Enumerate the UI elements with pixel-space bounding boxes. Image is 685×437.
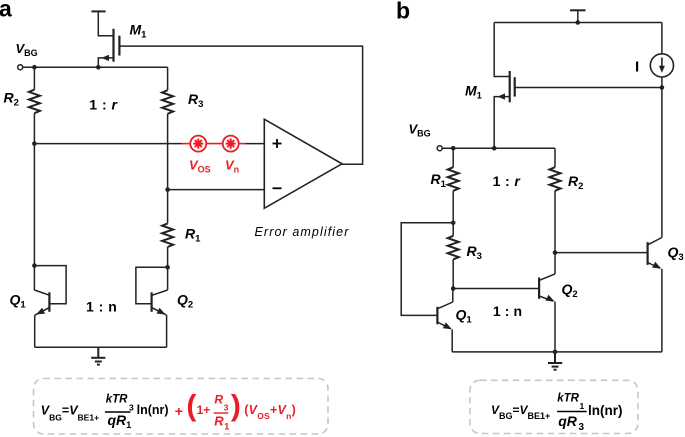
top rail (panel b) [494, 22, 662, 24]
node dot left branch / plus wire [32, 141, 37, 146]
formula box (panel b) [470, 380, 638, 433]
svg-text:VBG=VBE1+: VBG=VBE1+ [491, 403, 550, 421]
svg-text:R1: R1 [431, 171, 447, 190]
transistor M1 (PMOS, panel b) [494, 71, 515, 148]
wire left branch to Q1 [33, 113, 35, 290]
svg-text:VOS: VOS [189, 158, 211, 175]
svg-text:Q2: Q2 [562, 281, 578, 300]
transistor Q1 (panel b) [437, 289, 452, 352]
svg-text:1 : r: 1 : r [493, 173, 522, 189]
svg-text:Q1: Q1 [456, 307, 473, 326]
node dot Q2 collector [165, 265, 170, 270]
ground (panel b) [548, 352, 562, 370]
wire M1b source branch [494, 23, 510, 77]
svg-text:R2: R2 [568, 173, 583, 192]
wire Q2 base from R3 [453, 288, 539, 290]
svg-text:VBG: VBG [16, 41, 38, 58]
svg-text:1+: 1+ [197, 403, 211, 417]
wire to Q3 base [555, 252, 648, 254]
supply bar (VDD) panel a [91, 10, 105, 12]
svg-text:1 : n: 1 : n [493, 303, 522, 319]
wire R3 bottom [452, 259, 454, 288]
formula box (panel a) [34, 379, 329, 435]
wire M1 source to supply [98, 11, 113, 35]
svg-text:1 : r: 1 : r [89, 96, 118, 112]
svg-text:qR: qR [558, 413, 578, 429]
svg-text:1: 1 [126, 420, 131, 430]
transistor Q1 (panel a) [34, 266, 66, 348]
wire left branch upper [33, 67, 35, 89]
svg-text:1: 1 [580, 401, 585, 411]
svg-text:I: I [635, 59, 639, 76]
svg-text:1 : n: 1 : n [86, 299, 117, 315]
supply bar (VDD) panel b [570, 10, 586, 22]
wire R2 branch upper [554, 148, 556, 167]
resistor R2 (panel b) [550, 167, 561, 191]
svg-text:+: + [175, 403, 183, 419]
op-amp U1 error amplifier [264, 119, 342, 208]
transistor Q2 (panel b) [539, 274, 555, 352]
wire R2 bottom [554, 191, 556, 274]
node dot M1b drain [492, 146, 497, 151]
resistor R3 (panel b) [448, 236, 459, 260]
transistor Q3 [648, 238, 662, 352]
bottom rail (panel b) [452, 351, 662, 353]
wire M1 gate to error amp output (top feedback wire) [119, 46, 362, 164]
svg-text:VBG=VBE1+: VBG=VBE1+ [41, 403, 99, 422]
wire R1 to R3 [452, 191, 454, 236]
noise source VOS circle [190, 136, 206, 152]
wire minus input [168, 189, 265, 191]
wire left loop to Q1 base [401, 223, 453, 316]
svg-text:R2: R2 [4, 90, 19, 109]
node dot gate wire [660, 85, 665, 90]
svg-text:M1: M1 [130, 22, 148, 41]
wire right branch middle [167, 114, 169, 224]
svg-text:): ) [231, 389, 241, 422]
node dot ground junction [553, 350, 558, 355]
noise source Vn circle [223, 136, 239, 152]
wire VBG rail (panel a) [23, 66, 168, 68]
wire M1b gate [515, 87, 662, 89]
node dot minus wire junction [165, 187, 170, 192]
node dot supply [576, 20, 581, 25]
node dot R1b top [451, 146, 456, 151]
resistor R1 (panel b) [448, 167, 459, 191]
svg-text:3: 3 [579, 422, 585, 433]
svg-text:Q2: Q2 [177, 292, 193, 311]
node dot M1 drain [96, 65, 101, 70]
svg-text:1: 1 [224, 422, 229, 432]
red wire segments noise sources [182, 143, 246, 145]
svg-text:ln(nr): ln(nr) [137, 403, 169, 417]
svg-text:R: R [214, 393, 223, 407]
svg-text:VBG: VBG [409, 122, 431, 139]
svg-text:R: R [214, 414, 224, 429]
svg-text:kTR: kTR [106, 394, 128, 406]
minus input symbol [273, 187, 282, 189]
svg-text:kTR: kTR [557, 393, 579, 405]
wire plus input (black segments) [34, 143, 182, 145]
svg-text:Error amplifier: Error amplifier [255, 225, 350, 239]
transistor Q2 (panel a) [136, 267, 168, 347]
svg-text:3: 3 [129, 402, 134, 412]
svg-text:M1: M1 [465, 83, 483, 102]
svg-text:Q1: Q1 [10, 292, 27, 311]
node dot R1/R3 junction [451, 221, 456, 226]
resistor R2 [29, 90, 40, 114]
wire R1 branch upper [452, 148, 454, 167]
svg-text:ln(nr): ln(nr) [588, 403, 623, 418]
svg-text:Q3: Q3 [668, 244, 684, 263]
node dot Q1 collector [32, 263, 37, 268]
svg-text:R1: R1 [185, 226, 201, 245]
node dot R3 bottom / Q1 collector [451, 286, 456, 291]
svg-text:(: ( [186, 389, 196, 422]
current source I [650, 23, 673, 238]
wire right branch upper [167, 67, 169, 90]
node dot R2 bottom [553, 250, 558, 255]
svg-text:(VOS+Vn): (VOS+Vn) [244, 403, 296, 421]
resistor R3 [162, 90, 173, 114]
resistor R1 (panel a) [162, 223, 173, 247]
svg-text:R3: R3 [188, 91, 203, 110]
transistor M1 (PMOS, panel a) [98, 29, 119, 67]
plus input symbol [273, 139, 282, 148]
wire VBG rail (panel b) [442, 147, 555, 149]
svg-text:a: a [0, 0, 12, 22]
svg-text:R3: R3 [467, 243, 482, 262]
bottom rail (panel a) [35, 346, 167, 348]
svg-text:qR: qR [108, 412, 128, 428]
node dot R2 branch top [32, 65, 37, 70]
svg-text:b: b [396, 0, 410, 24]
svg-text:3: 3 [224, 403, 229, 413]
ground (panel a) [91, 347, 105, 364]
wire right branch lower [167, 247, 169, 290]
terminal VBG (panel b) [437, 146, 442, 151]
svg-text:Vn: Vn [225, 158, 239, 175]
terminal VBG (panel a) [18, 65, 23, 70]
